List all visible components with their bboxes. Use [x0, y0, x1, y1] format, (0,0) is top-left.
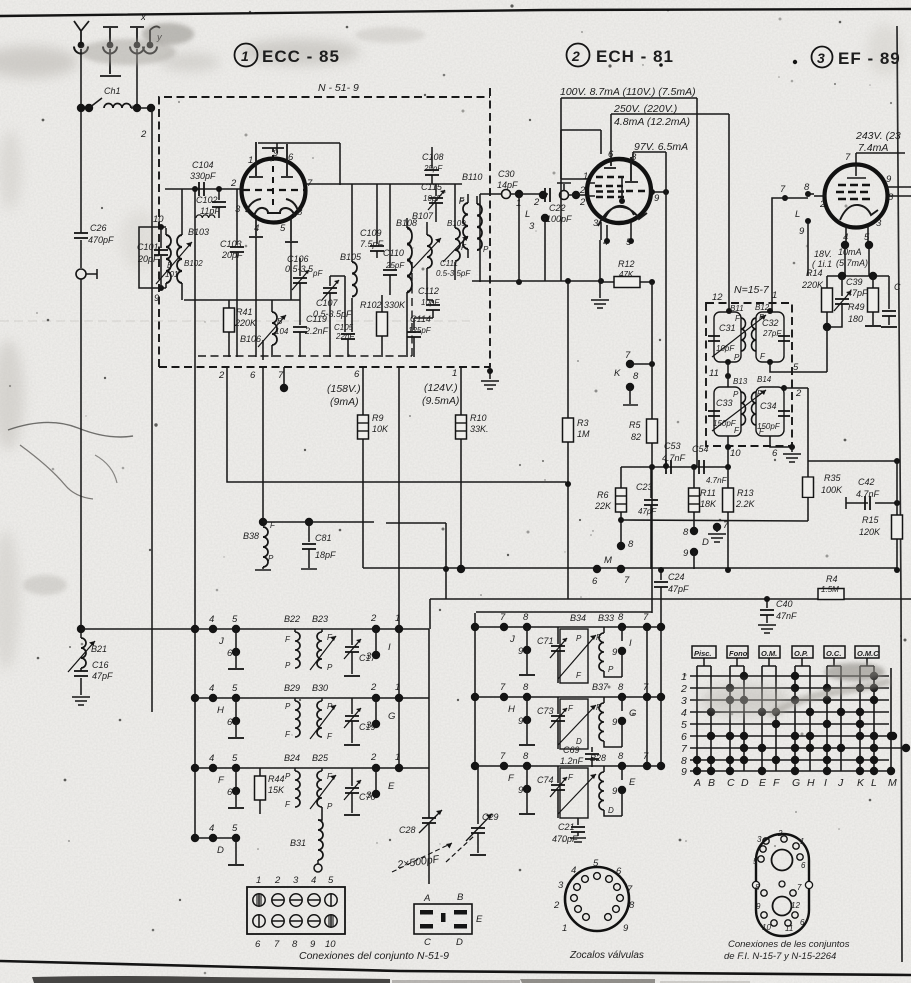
svg-text:P: P	[596, 703, 602, 712]
svg-text:R14: R14	[806, 268, 823, 278]
capacitor C114 125pF	[407, 314, 432, 357]
wire osc section links	[263, 276, 433, 360]
resistor R35 100K	[621, 458, 900, 521]
wire heater bus y276	[827, 272, 889, 280]
node 7 row F2	[500, 751, 508, 770]
svg-text:8: 8	[755, 883, 760, 892]
svg-text:C81: C81	[315, 533, 332, 543]
svg-text:C16: C16	[92, 660, 109, 670]
svg-text:250V. (220V.): 250V. (220V.)	[613, 103, 677, 115]
svg-text:9: 9	[886, 174, 892, 185]
svg-text:8: 8	[523, 612, 529, 623]
wire left vertical to tuner bank	[80, 279, 82, 638]
svg-text:C114: C114	[410, 314, 431, 324]
svg-text:180: 180	[848, 314, 863, 324]
svg-text:3: 3	[681, 695, 687, 707]
node 2 row F	[366, 752, 395, 801]
svg-text:C101: C101	[137, 242, 159, 252]
inductor B38	[243, 518, 276, 570]
svg-text:9: 9	[799, 226, 805, 237]
svg-text:243V. (23: 243V. (23	[855, 130, 901, 142]
svg-text:R15: R15	[862, 515, 880, 525]
svg-text:D: D	[702, 537, 709, 548]
svg-text:6: 6	[800, 918, 805, 927]
svg-text:150pF: 150pF	[757, 422, 781, 431]
wire pin6 drop x263	[262, 367, 264, 522]
svg-text:25pF: 25pF	[385, 261, 405, 270]
wire AGC bus y568	[363, 565, 897, 573]
svg-text:4: 4	[209, 823, 214, 834]
svg-text:8: 8	[618, 612, 624, 623]
svg-text:3: 3	[529, 221, 535, 232]
svg-text:O.C.: O.C.	[826, 649, 841, 658]
svg-text:R10: R10	[470, 413, 487, 423]
capacitor C17 trimmer	[344, 629, 377, 676]
svg-text:2.2K: 2.2K	[735, 499, 756, 509]
wire column x429	[428, 629, 430, 818]
resistor R49 180	[848, 276, 881, 326]
svg-text:pF: pF	[312, 269, 323, 278]
svg-text:3: 3	[757, 835, 762, 844]
svg-text:9: 9	[518, 785, 524, 796]
svg-text:10K: 10K	[372, 424, 389, 434]
terminal grid jack	[557, 183, 588, 200]
node 5 row J	[232, 614, 240, 633]
bottom border line	[0, 961, 911, 975]
node J 6 with ground	[218, 629, 244, 669]
wire pin9 to rail	[649, 189, 669, 195]
terminal C30 jack	[497, 169, 518, 199]
resistor R9 10K	[358, 367, 390, 568]
rail 100V 8.7mA	[560, 86, 697, 281]
svg-text:A: A	[693, 777, 701, 789]
svg-text:P: P	[327, 702, 333, 711]
svg-text:10: 10	[325, 939, 336, 950]
svg-text:3: 3	[366, 720, 372, 731]
node 1 row H	[395, 682, 403, 702]
svg-text:2: 2	[140, 129, 147, 140]
terminal phono jack	[76, 269, 97, 279]
transformer B101 B102	[139, 189, 203, 300]
svg-text:18V.: 18V.	[814, 249, 832, 259]
svg-text:P: P	[285, 772, 291, 781]
svg-text:7: 7	[278, 370, 284, 381]
svg-text:5: 5	[232, 753, 238, 764]
node 8 below R6	[617, 539, 634, 550]
antenna terminal 3	[130, 27, 144, 112]
svg-text:2: 2	[370, 752, 377, 763]
svg-text:C23: C23	[636, 482, 653, 492]
svg-text:R13: R13	[737, 488, 754, 498]
node 8	[804, 182, 814, 197]
svg-text:7: 7	[627, 884, 633, 895]
resistor R102 330K	[360, 295, 406, 357]
svg-text:6: 6	[250, 370, 256, 381]
svg-text:E: E	[759, 777, 767, 789]
svg-text:B: B	[167, 261, 173, 270]
svg-text:P: P	[327, 663, 333, 672]
svg-text:330pF: 330pF	[190, 171, 216, 181]
svg-text:1: 1	[256, 875, 261, 886]
svg-text:97V. 6.5mA: 97V. 6.5mA	[634, 141, 688, 153]
selector O.M.C	[855, 646, 879, 666]
connector plate pin numbers	[255, 875, 336, 950]
svg-text:C34: C34	[760, 401, 777, 411]
svg-text:2: 2	[579, 197, 586, 208]
smudge over terminals	[80, 39, 176, 65]
svg-text:47pF: 47pF	[638, 507, 657, 516]
node pin4	[604, 238, 610, 244]
svg-text:F: F	[773, 777, 780, 789]
svg-text:B31: B31	[290, 838, 306, 848]
svg-text:7: 7	[643, 612, 649, 623]
wire rail drop x568	[567, 281, 569, 418]
wire bus y599	[430, 599, 911, 629]
svg-text:2: 2	[218, 370, 225, 381]
svg-text:1: 1	[395, 752, 400, 763]
resistor R3 1M	[563, 418, 591, 599]
svg-text:B33: B33	[598, 613, 614, 623]
resistor R44 15K	[255, 768, 286, 814]
node 8 col row H2	[618, 682, 626, 711]
svg-text:6: 6	[772, 448, 778, 459]
wire tube top bus	[258, 143, 340, 185]
svg-text:I: I	[629, 638, 632, 649]
inductor B31	[290, 807, 323, 872]
svg-text:(5.7mA): (5.7mA)	[836, 258, 868, 268]
svg-text:B107: B107	[412, 211, 434, 221]
svg-text:6: 6	[227, 648, 233, 659]
svg-text:9: 9	[612, 717, 618, 728]
svg-text:470pF: 470pF	[88, 235, 114, 245]
rail 243V 7.4mA	[855, 130, 905, 164]
svg-text:9: 9	[623, 923, 629, 934]
svg-text:(124V.): (124V.)	[424, 382, 458, 394]
resistor R14 220K	[801, 268, 833, 327]
svg-text:12: 12	[791, 901, 800, 910]
capacitor C29 variable	[446, 766, 499, 862]
svg-text:8: 8	[523, 751, 529, 762]
svg-text:R3: R3	[577, 418, 589, 428]
svg-text:R41: R41	[236, 307, 253, 317]
inductor B25 variable	[310, 753, 336, 811]
inductor B103	[188, 215, 215, 237]
svg-text:3: 3	[558, 880, 564, 891]
node 8 col row J2	[618, 612, 626, 641]
svg-text:10: 10	[153, 214, 164, 225]
node dots B11 B12	[725, 308, 773, 365]
resistor R6 22K	[594, 467, 627, 546]
wire pins 4 5 down	[841, 241, 873, 276]
svg-text:A: A	[423, 893, 430, 904]
svg-text:B37: B37	[592, 682, 609, 692]
node 7 col row F2	[643, 751, 651, 770]
svg-text:1: 1	[800, 837, 804, 846]
svg-text:47nF: 47nF	[776, 611, 797, 621]
capacitor C105 22nF	[334, 323, 355, 357]
wire rail drop x729	[728, 114, 730, 311]
svg-text:de F.I. N-15-7 y N-15-2264: de F.I. N-15-7 y N-15-2264	[724, 951, 836, 962]
svg-text:B14: B14	[757, 375, 772, 384]
wire node 2	[781, 385, 808, 461]
svg-text:C33: C33	[716, 398, 733, 408]
heptode U2 ECH-81 envelope	[587, 157, 651, 240]
svg-text:1: 1	[395, 682, 400, 693]
svg-text:C42: C42	[858, 477, 875, 487]
pin labels EF-89	[819, 152, 894, 243]
svg-text:7: 7	[780, 184, 786, 195]
svg-text:8: 8	[633, 371, 639, 382]
svg-text:1: 1	[241, 48, 249, 64]
node 7	[780, 184, 808, 201]
svg-text:3: 3	[366, 651, 372, 662]
label 18V 10mA	[812, 247, 868, 269]
svg-text:1.5M: 1.5M	[821, 585, 839, 594]
svg-text:K: K	[614, 368, 621, 379]
svg-text:C105: C105	[334, 323, 354, 332]
svg-text:L: L	[525, 209, 530, 220]
rail 250V 4.8mA	[611, 103, 729, 160]
svg-text:Pisc.: Pisc.	[694, 649, 712, 658]
node L 9	[795, 209, 811, 276]
capacitor C70 trimmer	[344, 768, 376, 815]
svg-text:2: 2	[819, 199, 826, 210]
svg-text:4: 4	[209, 753, 214, 764]
svg-text:L: L	[795, 209, 800, 220]
svg-text:8: 8	[523, 682, 529, 693]
svg-text:10pF: 10pF	[716, 344, 735, 353]
resistor R41 220K	[224, 300, 258, 357]
svg-text:Zocalos válvulas: Zocalos válvulas	[569, 950, 644, 961]
svg-text:100pF: 100pF	[546, 214, 572, 224]
svg-text:5: 5	[232, 683, 238, 694]
node 7 row H2	[500, 682, 508, 701]
svg-text:47pF: 47pF	[668, 584, 689, 594]
wire column x399	[398, 368, 400, 768]
right border line	[897, 26, 902, 962]
node 1 row F	[395, 752, 403, 772]
wire row D	[195, 837, 236, 839]
svg-text:10pF: 10pF	[423, 194, 442, 203]
svg-text:9: 9	[654, 193, 660, 204]
svg-text:I: I	[388, 642, 391, 653]
wire bank spine	[191, 625, 199, 842]
svg-text:E: E	[476, 914, 483, 925]
svg-text:100V. 8.7mA (110V.) (7.: 100V. 8.7mA (110V.) (7.5mA)	[560, 86, 696, 98]
inductor B36	[596, 697, 622, 747]
svg-text:6: 6	[288, 152, 294, 163]
node 4 row J	[209, 614, 217, 633]
switch Ch1	[85, 86, 121, 112]
svg-text:5: 5	[793, 362, 799, 373]
wire antenna down-lead	[80, 49, 82, 230]
capacitor C53 4.7nF	[662, 441, 686, 474]
svg-text:9: 9	[273, 148, 279, 159]
svg-text:G: G	[629, 708, 636, 719]
svg-text:4.7nF: 4.7nF	[856, 489, 880, 499]
inductor B22	[284, 614, 300, 670]
svg-text:P: P	[733, 390, 739, 399]
svg-text:C102: C102	[196, 195, 218, 205]
svg-text:47pF: 47pF	[847, 288, 868, 298]
node J2 9 with ground	[509, 627, 535, 675]
wire rail drop x697	[696, 98, 698, 467]
svg-text:B11: B11	[730, 304, 744, 313]
svg-text:7: 7	[274, 939, 280, 950]
svg-text:1: 1	[583, 171, 588, 182]
svg-text:125pF: 125pF	[408, 326, 432, 335]
svg-text:C32: C32	[762, 318, 779, 328]
svg-text:C29: C29	[482, 812, 499, 822]
capacitor C110 25pF	[383, 248, 405, 295]
svg-text:220K: 220K	[234, 318, 257, 328]
node F2 9 with ground	[508, 766, 535, 814]
capacitor C cathode	[881, 276, 901, 327]
svg-text:1: 1	[248, 155, 253, 166]
node 8 row J2	[523, 612, 531, 631]
svg-text:8: 8	[631, 152, 637, 163]
inductor B37 loop	[558, 682, 609, 749]
wire row J	[195, 628, 429, 630]
selector O.P.	[792, 646, 813, 666]
svg-text:150pF: 150pF	[713, 419, 737, 428]
wire node 5	[770, 362, 827, 373]
svg-text:M: M	[604, 555, 612, 566]
capacitor C32	[778, 336, 790, 341]
svg-text:7: 7	[500, 682, 506, 693]
wire AVC y522	[263, 522, 446, 599]
svg-text:9: 9	[518, 646, 524, 657]
antenna terminal 1	[74, 21, 89, 54]
wire right bank top	[476, 467, 652, 613]
svg-text:1M: 1M	[577, 429, 590, 439]
svg-text:3: 3	[876, 218, 882, 229]
capacitor C69 1.2nF	[560, 745, 599, 767]
inductor B108	[396, 218, 417, 357]
node 8 row H2	[523, 682, 531, 701]
svg-text:101: 101	[165, 270, 178, 279]
caption Conexiones de los conjuntos	[724, 939, 850, 962]
svg-text:G: G	[792, 777, 800, 789]
wire C53 bus y467	[621, 463, 731, 470]
grid column labels	[693, 777, 897, 789]
svg-text:20pF: 20pF	[221, 250, 243, 260]
node 8 col row F2	[618, 751, 626, 780]
node 9 E row F2	[612, 777, 636, 797]
svg-text:B103: B103	[188, 227, 209, 237]
svg-text:C115: C115	[421, 182, 443, 192]
svg-text:1: 1	[562, 923, 567, 934]
selector O.M.	[759, 646, 780, 666]
capacitor C54 4.7nF	[692, 444, 728, 485]
resistor R4 1.5M	[818, 574, 844, 600]
svg-text:C30: C30	[498, 169, 515, 179]
svg-text:4: 4	[571, 865, 576, 876]
capacitor C28 2x500pF variable	[399, 810, 442, 884]
svg-text:Conexiones de les conjuntos: Conexiones de les conjuntos	[728, 939, 850, 950]
svg-text:(158V.): (158V.)	[327, 383, 361, 395]
svg-text:9: 9	[154, 293, 160, 304]
capacitor C109 7.5pF	[360, 228, 384, 258]
pin labels ECH-81	[579, 149, 660, 248]
svg-text:4: 4	[681, 707, 687, 719]
inductor B28 loop	[558, 753, 606, 818]
svg-text:D: D	[741, 777, 749, 789]
capacitor C104 330pF	[190, 160, 216, 196]
node 2 row J	[366, 613, 391, 662]
svg-text:22nF: 22nF	[335, 332, 355, 341]
svg-text:1.2nF: 1.2nF	[560, 756, 584, 766]
svg-text:8: 8	[618, 682, 624, 693]
svg-text:R5: R5	[629, 420, 641, 430]
svg-text:120K: 120K	[859, 527, 881, 537]
wire row H	[195, 697, 429, 699]
wire node7 down to N-15-7 pin1	[772, 198, 785, 311]
node 8 row F2	[523, 751, 531, 770]
node 5 row F	[232, 753, 240, 772]
svg-text:R49: R49	[848, 302, 865, 312]
svg-text:C53: C53	[664, 441, 681, 451]
svg-text:7.4mA: 7.4mA	[858, 142, 888, 154]
svg-text:8: 8	[629, 900, 635, 911]
wire main left vertical	[151, 108, 153, 712]
wire screen feed y281	[472, 278, 604, 284]
inductor B27	[599, 766, 622, 816]
svg-text:3: 3	[593, 218, 599, 229]
capacitor C23 47pF	[636, 467, 658, 569]
svg-text:5: 5	[753, 857, 758, 866]
inductor B34 loop	[558, 613, 596, 683]
svg-text:10: 10	[730, 448, 741, 459]
wire row F2	[475, 765, 661, 767]
svg-text:5: 5	[681, 719, 687, 731]
svg-text:C112: C112	[418, 286, 439, 296]
svg-text:C111: C111	[440, 259, 458, 268]
node g1	[192, 186, 198, 192]
wire pin2 drop x227	[227, 367, 566, 482]
svg-text:33K.: 33K.	[470, 424, 489, 434]
svg-text:B25: B25	[312, 753, 329, 763]
svg-text:2: 2	[777, 829, 783, 838]
capacitor C42 4.7nF	[846, 477, 900, 510]
svg-text:8: 8	[297, 207, 303, 218]
capacitor C111 0.5-3.5pF	[436, 259, 471, 278]
svg-text:220K: 220K	[801, 280, 824, 290]
svg-text:5: 5	[593, 858, 599, 869]
svg-text:0.5-3.5: 0.5-3.5	[285, 264, 314, 274]
grid row labels	[680, 671, 688, 778]
node 1	[510, 190, 548, 282]
svg-text:B30: B30	[312, 683, 328, 693]
svg-text:6: 6	[227, 787, 233, 798]
svg-text:B110: B110	[462, 172, 482, 182]
svg-text:O.M.: O.M.	[761, 649, 777, 658]
svg-text:K: K	[857, 777, 865, 789]
svg-text:5: 5	[232, 823, 238, 834]
svg-text:0.5-3.5pF: 0.5-3.5pF	[436, 269, 471, 278]
node 5 row H	[232, 683, 240, 702]
svg-text:100K: 100K	[821, 485, 843, 495]
svg-text:D: D	[217, 845, 224, 856]
wire pin3 cathode	[599, 240, 601, 298]
svg-text:B23: B23	[312, 614, 328, 624]
node 2 row H	[366, 682, 395, 731]
inductor B105	[340, 250, 362, 330]
capacitor C40 47nF	[758, 596, 797, 633]
svg-text:B34: B34	[570, 613, 586, 623]
svg-text:Fono: Fono	[729, 649, 748, 658]
capacitor C21 470pF	[552, 818, 586, 844]
